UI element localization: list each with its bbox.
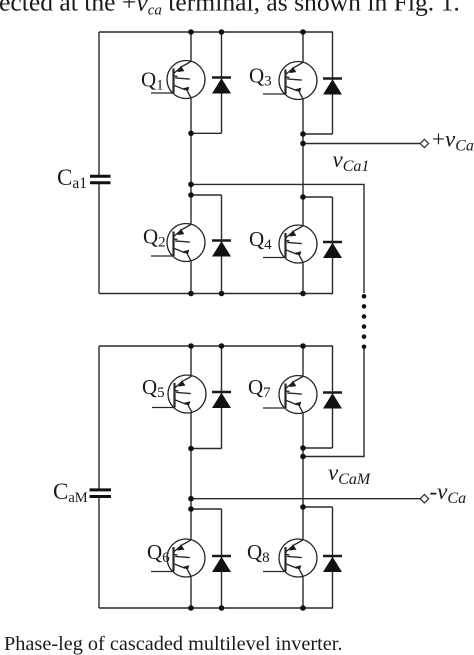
svg-text:Q2: Q2 <box>143 225 166 251</box>
wire: +vCa output line <box>303 143 420 145</box>
wire: D7 bottom stub <box>303 447 333 449</box>
junction: bottom rail1 / left branch <box>188 291 194 297</box>
wire: cell1 left midpoint line to series link <box>191 184 364 293</box>
wire: D5 diode branch vertical <box>221 346 223 449</box>
wire: D4 diode branch vertical <box>332 197 334 294</box>
wire: D2 top stub <box>191 194 222 196</box>
wire: cell2 right branch vertical <box>302 346 304 608</box>
junction: top rail2 / D5 <box>219 343 225 349</box>
transistor Q6 <box>151 539 205 577</box>
svg-text:Q3: Q3 <box>249 64 272 90</box>
svg-text:Q6: Q6 <box>147 540 170 566</box>
svg-text:Q4: Q4 <box>249 227 272 253</box>
capacitor CaM <box>90 490 112 497</box>
diode D1 <box>212 78 231 94</box>
svg-text:vCa1: vCa1 <box>333 147 370 175</box>
wire: D7 diode branch vertical <box>332 346 334 448</box>
wire: cell1 left branch vertical <box>190 32 192 294</box>
junction: bottom rail1 / D2 <box>219 291 225 297</box>
svg-text:CaM: CaM <box>53 479 88 506</box>
svg-text:vCaM: vCaM <box>328 460 372 488</box>
wire: D2 diode branch vertical <box>221 195 223 294</box>
junction: top rail / right branch <box>300 29 306 35</box>
transistor Q8 <box>263 539 317 577</box>
capacitor Ca1 <box>90 176 111 183</box>
wire: D3 bottom stub <box>303 133 333 135</box>
wire: cell2 top rail <box>99 345 333 347</box>
node: +vCa terminal diamond <box>420 139 428 147</box>
junction: left branch2 / -vCa line <box>188 496 194 502</box>
wire: cell1 top rail <box>99 31 333 33</box>
junction: bottom rail2 / D6 <box>219 605 225 611</box>
diode D7 <box>323 393 342 409</box>
junction: bottom rail2 / right branch <box>300 605 306 611</box>
svg-text:+vCa: +vCa <box>432 127 474 155</box>
junction: right branch / +vCa line <box>300 141 306 147</box>
junction: top rail / left branch <box>188 29 194 35</box>
junction: top rail2 / right branch <box>300 343 306 349</box>
junction: left branch / midpoint line <box>188 182 194 188</box>
junction: right branch / D3 stub <box>300 131 306 137</box>
diode D3 <box>323 79 342 95</box>
wire: cell1 left outer wire upper (to Ca1) <box>98 32 100 175</box>
wire: D8 diode branch vertical <box>332 507 334 608</box>
wire: -vCa output line <box>191 498 420 500</box>
svg-text:Q8: Q8 <box>247 540 270 566</box>
wire: cell2 bottom rail <box>99 607 333 609</box>
junction: right branch / D4 stub <box>300 194 306 200</box>
svg-text:Phase-leg of cascaded multilev: Phase-leg of cascaded multilevel inverte… <box>4 633 342 655</box>
junction: top rail / D1 <box>219 29 225 35</box>
transistor Q5 <box>152 375 206 413</box>
transistor Q3 <box>263 62 317 100</box>
svg-text:Ca1: Ca1 <box>57 165 87 192</box>
diode D2 <box>212 241 231 257</box>
transistor Q2 <box>151 224 205 262</box>
wire: D1 diode branch vertical <box>221 32 223 133</box>
wire: cell2 left branch vertical <box>190 346 192 608</box>
wire: cell2 left outer wire lower (from CaM) <box>98 498 100 608</box>
junction: bottom rail1 / right branch <box>300 291 306 297</box>
wire: D1 bottom stub <box>191 132 222 134</box>
node: series connection dotted continuation <box>362 294 367 349</box>
junction: right branch2 / D8 stub <box>300 504 306 510</box>
wire: cell2 left outer wire upper (to CaM) <box>98 346 100 489</box>
wire: cell1 bottom rail <box>99 293 333 295</box>
wire: D8 top stub <box>303 506 333 508</box>
svg-text:Q7: Q7 <box>248 375 271 401</box>
wire: cell1 left outer wire lower (from Ca1) <box>98 184 100 294</box>
svg-text:Q1: Q1 <box>141 68 164 94</box>
transistor Q1 <box>151 61 205 99</box>
wire: D5 bottom stub <box>191 448 222 450</box>
junction: right branch2 / series link <box>300 454 306 460</box>
junction: left branch2 / D5 stub <box>188 446 194 452</box>
svg-text:-vCa: -vCa <box>430 479 467 507</box>
junction: bottom rail2 / left branch <box>188 605 194 611</box>
diode D4 <box>323 242 342 258</box>
diode D5 <box>212 392 231 408</box>
junction: left branch2 / D6 stub <box>188 506 194 512</box>
transistor Q4 <box>263 225 317 263</box>
diode D8 <box>323 556 342 572</box>
wire: series link into cell2 right midpoint <box>303 349 364 457</box>
diode D6 <box>212 556 231 572</box>
junction: left branch / D2 stub <box>188 192 194 198</box>
junction: top rail2 / left branch <box>188 343 194 349</box>
wire: D3 diode branch vertical <box>332 32 334 134</box>
junction: right branch2 / D7 stub <box>300 445 306 451</box>
wire: D6 top stub <box>191 508 222 510</box>
junction: left branch / D1 stub <box>188 131 194 137</box>
svg-text:Q5: Q5 <box>142 375 165 401</box>
wire: cell1 right branch vertical <box>302 32 304 294</box>
wire: D4 top stub <box>303 196 333 198</box>
node: -vCa terminal diamond <box>420 495 428 503</box>
svg-text:ected at the +vca terminal, as: ected at the +vca terminal, as shown in … <box>0 0 460 18</box>
wire: D6 diode branch vertical <box>221 509 223 608</box>
transistor Q7 <box>263 376 317 414</box>
